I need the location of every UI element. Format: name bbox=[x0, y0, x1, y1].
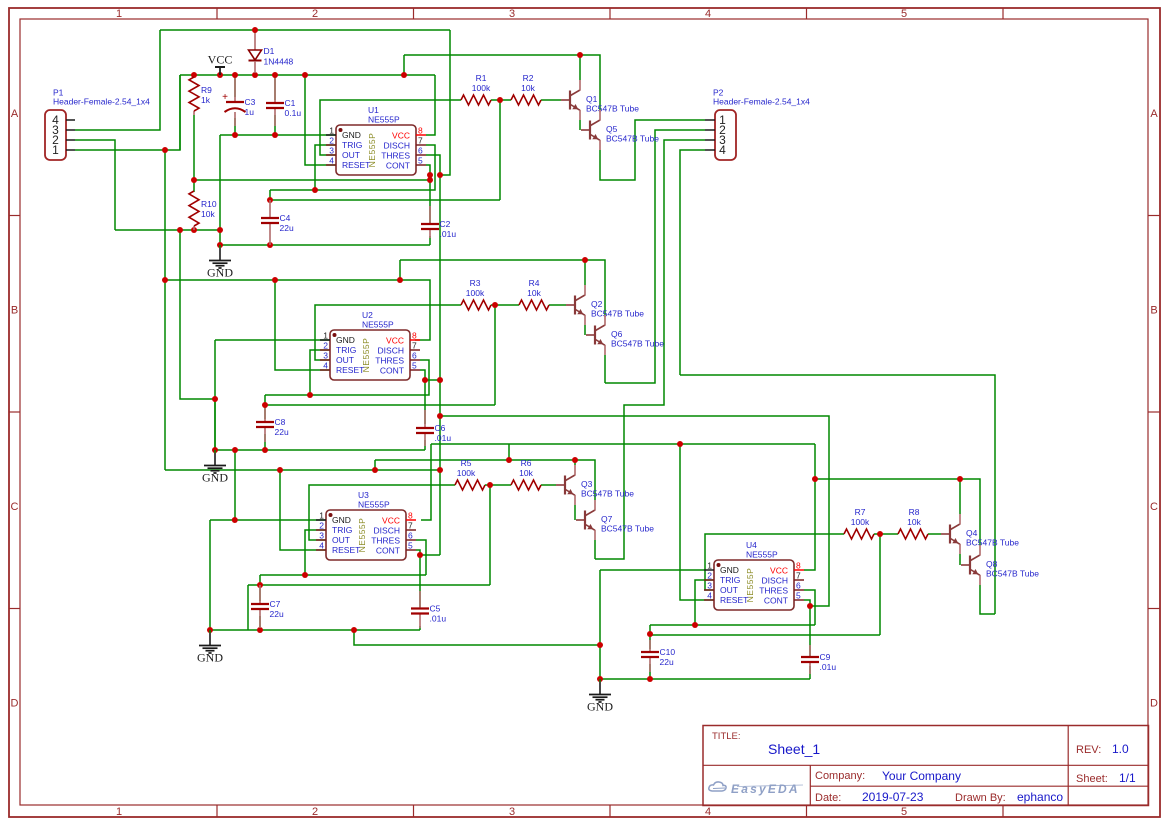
wire R2-Q1 bbox=[541, 99, 561, 101]
svg-text:Company:: Company: bbox=[815, 770, 865, 782]
junction row630/gnd3 bbox=[207, 627, 213, 633]
junction row280/RESET2 bbox=[272, 277, 278, 283]
junction rail/row55 bbox=[401, 72, 407, 78]
svg-text:7: 7 bbox=[796, 571, 801, 581]
svg-text:Header-Female-2.54_1x4: Header-Female-2.54_1x4 bbox=[713, 97, 810, 107]
svg-text:DISCH: DISCH bbox=[762, 576, 788, 586]
wire CONT3 tie bbox=[420, 554, 440, 556]
svg-text:10k: 10k bbox=[527, 288, 541, 298]
U4 pin 8 VCC bbox=[794, 569, 804, 571]
wire x600 gnd col bbox=[599, 570, 601, 679]
junction row230/R10 bbox=[191, 227, 197, 233]
svg-text:1k: 1k bbox=[201, 95, 211, 105]
svg-text:Date:: Date: bbox=[815, 792, 841, 804]
EasyEDA logo bbox=[709, 782, 726, 791]
svg-text:1: 1 bbox=[319, 511, 324, 521]
ground GND3 bbox=[209, 630, 211, 633]
P1 pin 2 bbox=[66, 139, 75, 141]
resistor R1 bbox=[461, 95, 491, 105]
U1 pin 2 TRIG bbox=[326, 144, 336, 146]
svg-text:EasyEDA: EasyEDA bbox=[731, 782, 800, 796]
wire row55 collector Q1/Q5 bbox=[404, 55, 600, 110]
wire C8 bottom bbox=[264, 434, 266, 450]
svg-text:TITLE:: TITLE: bbox=[712, 731, 741, 742]
svg-text:Q7: Q7 bbox=[601, 514, 613, 524]
junction row280/row260 bbox=[397, 277, 403, 283]
junction CONT1 bbox=[427, 172, 433, 178]
wire C7 top bbox=[259, 575, 261, 601]
svg-text:.01u: .01u bbox=[430, 614, 447, 624]
svg-text:2: 2 bbox=[312, 8, 318, 20]
wire Q5.E down bbox=[600, 120, 705, 180]
svg-text:2: 2 bbox=[707, 571, 712, 581]
svg-text:U2: U2 bbox=[362, 310, 373, 320]
wire row200 bbox=[270, 199, 500, 201]
U1 pin 8 VCC bbox=[416, 134, 426, 136]
svg-text:RESET: RESET bbox=[342, 160, 370, 170]
junction row260/Q2C bbox=[582, 257, 588, 263]
svg-text:R7: R7 bbox=[855, 507, 866, 517]
svg-text:CONT: CONT bbox=[764, 596, 788, 606]
wire x235 to U3.GND bbox=[234, 450, 236, 520]
svg-text:Your Company: Your Company bbox=[882, 769, 961, 783]
svg-text:Q8: Q8 bbox=[986, 559, 998, 569]
capacitor C8 bbox=[256, 421, 274, 423]
svg-text:THRES: THRES bbox=[759, 586, 788, 596]
U4 pin 6 THRES bbox=[794, 589, 804, 591]
svg-text:4: 4 bbox=[705, 8, 711, 20]
resistor R3 bbox=[461, 300, 491, 310]
svg-text:5: 5 bbox=[901, 806, 907, 818]
U3 pin 6 THRES bbox=[406, 539, 416, 541]
svg-text:TRIG: TRIG bbox=[720, 575, 740, 585]
wire R5-R6 bbox=[485, 484, 511, 486]
junction row630/C7 bbox=[257, 627, 263, 633]
U3 pin 2 TRIG bbox=[316, 529, 326, 531]
svg-text:ephanco: ephanco bbox=[1017, 790, 1063, 804]
svg-text:10k: 10k bbox=[907, 517, 921, 527]
wire row30 top rail bbox=[160, 29, 450, 31]
capacitor C9 bbox=[801, 656, 819, 658]
svg-text:D1: D1 bbox=[264, 46, 275, 56]
U2 pin 8 VCC bbox=[410, 339, 420, 341]
svg-text:BC547B Tube: BC547B Tube bbox=[586, 104, 639, 114]
U2 pin 2 TRIG bbox=[320, 349, 330, 351]
wire P1.1 to VCC rail bbox=[75, 75, 180, 150]
wire R1R2 junction down bbox=[499, 100, 501, 200]
wire U1 THRES down bbox=[426, 155, 440, 555]
svg-text:5: 5 bbox=[412, 361, 417, 371]
wire Q3 collector up bbox=[574, 460, 576, 465]
svg-text:R10: R10 bbox=[201, 199, 217, 209]
connector P1 Header-Female-2.54_1x4 body bbox=[45, 110, 66, 160]
junction row470/row460 bbox=[372, 467, 378, 473]
svg-text:1u: 1u bbox=[245, 107, 255, 117]
svg-text:4: 4 bbox=[707, 591, 712, 601]
junction row190/TRIG1 bbox=[312, 187, 318, 193]
svg-text:THRES: THRES bbox=[381, 151, 410, 161]
junction row645 bbox=[597, 642, 603, 648]
svg-text:THRES: THRES bbox=[371, 536, 400, 546]
wire row260 collectors Q2/Q6 bbox=[400, 260, 605, 315]
wire C4 tap bbox=[269, 190, 271, 200]
svg-text:BC547B Tube: BC547B Tube bbox=[966, 538, 1019, 548]
wire row416 bbox=[440, 416, 829, 606]
wire row479 bbox=[815, 479, 980, 545]
svg-text:TRIG: TRIG bbox=[332, 525, 352, 535]
wire row135 caps to U1.GND bbox=[220, 134, 336, 136]
svg-text:1/1: 1/1 bbox=[1119, 771, 1136, 785]
wire U4 OUT to R7 bbox=[705, 534, 844, 590]
wire U2 OUT to R3 bbox=[315, 305, 461, 360]
wire U2 GND row bbox=[215, 339, 330, 341]
junction row200/C4 bbox=[267, 197, 273, 203]
wire row375 bbox=[680, 375, 995, 614]
wire U3 CONT bbox=[416, 550, 420, 555]
wire row679 gnd4 bbox=[600, 678, 810, 680]
svg-text:OUT: OUT bbox=[332, 535, 350, 545]
svg-text:22u: 22u bbox=[275, 427, 289, 437]
sheet ruler ticks bbox=[216, 8, 218, 19]
op-amp U3 NE555P body bbox=[326, 510, 406, 560]
svg-text:4: 4 bbox=[319, 541, 324, 551]
svg-text:100k: 100k bbox=[466, 288, 485, 298]
wire U4 CONT bbox=[804, 600, 810, 657]
svg-text:C7: C7 bbox=[270, 599, 281, 609]
U2 pin 7 DISCH bbox=[410, 349, 420, 351]
svg-text:TRIG: TRIG bbox=[336, 345, 356, 355]
svg-text:3: 3 bbox=[329, 146, 334, 156]
svg-text:GND: GND bbox=[202, 471, 228, 485]
junction rail/C1 bbox=[272, 72, 278, 78]
svg-text:7: 7 bbox=[408, 521, 413, 531]
svg-text:GND: GND bbox=[197, 651, 223, 665]
wire P2.4 col bbox=[680, 150, 705, 375]
ground GND4 bbox=[599, 679, 601, 682]
junction R3/R4 bbox=[492, 302, 498, 308]
svg-text:10k: 10k bbox=[521, 83, 535, 93]
junction row460/Q3C bbox=[572, 457, 578, 463]
svg-text:BC547B Tube: BC547B Tube bbox=[986, 569, 1039, 579]
wire U2 RESET bbox=[275, 280, 330, 370]
svg-text:100k: 100k bbox=[472, 83, 491, 93]
junction row135/C1 bbox=[272, 132, 278, 138]
svg-text:NE555P: NE555P bbox=[746, 550, 778, 560]
capacitor C5 bbox=[411, 607, 429, 609]
transistor Q4 BC547B bbox=[941, 533, 950, 535]
svg-text:.01u: .01u bbox=[820, 662, 837, 672]
svg-text:0.1u: 0.1u bbox=[285, 108, 302, 118]
junction row470/RESET3 bbox=[277, 467, 283, 473]
svg-text:2019-07-23: 2019-07-23 bbox=[862, 790, 924, 804]
U4 pin 7 DISCH bbox=[794, 579, 804, 581]
svg-text:Drawn By:: Drawn By: bbox=[955, 792, 1006, 804]
svg-text:.01u: .01u bbox=[435, 433, 452, 443]
wire U3 VCC feed bbox=[421, 444, 431, 520]
wire row230 bbox=[115, 229, 220, 231]
capacitor C6 bbox=[416, 427, 434, 429]
svg-text:3: 3 bbox=[323, 351, 328, 361]
svg-text:22u: 22u bbox=[270, 609, 284, 619]
junction row470/x440 bbox=[437, 467, 443, 473]
wire U1 OUT to R1 bbox=[320, 100, 461, 155]
U4 pin 5 CONT bbox=[794, 599, 804, 601]
svg-text:1N4448: 1N4448 bbox=[264, 57, 294, 67]
resistor R7 bbox=[844, 529, 874, 539]
junction row230/x180 bbox=[177, 227, 183, 233]
svg-text:BC547B Tube: BC547B Tube bbox=[581, 489, 634, 499]
svg-text:C5: C5 bbox=[430, 604, 441, 614]
svg-text:B: B bbox=[11, 305, 18, 317]
P2 pin 1 bbox=[705, 119, 715, 121]
wire C9 bottom bbox=[809, 666, 811, 679]
wire row190 DISCH bbox=[270, 145, 435, 190]
wire P2.2 col bbox=[605, 130, 705, 383]
power VCC bbox=[219, 67, 221, 75]
U1 pin 1 GND bbox=[326, 134, 336, 136]
svg-text:GND: GND bbox=[342, 130, 361, 140]
U2 pin 5 CONT bbox=[410, 369, 420, 371]
wire C2 bottom join bbox=[429, 236, 431, 245]
wire R8-Q4 bbox=[928, 533, 941, 535]
junction rail/D1 bbox=[252, 72, 258, 78]
svg-text:GND: GND bbox=[336, 335, 355, 345]
svg-text:NE555P: NE555P bbox=[358, 500, 390, 510]
svg-text:RESET: RESET bbox=[720, 595, 748, 605]
wire row630 gnd3 bbox=[210, 629, 420, 631]
wire R10 top bbox=[193, 180, 195, 192]
P1 pin 4 bbox=[66, 119, 75, 121]
junction CONT3 bbox=[417, 552, 423, 558]
op-amp U2 NE555P body bbox=[330, 330, 410, 380]
junction row450/C8 bbox=[262, 447, 268, 453]
svg-text:THRES: THRES bbox=[375, 356, 404, 366]
junction row625/TRIG4 bbox=[692, 622, 698, 628]
svg-text:10k: 10k bbox=[201, 209, 215, 219]
svg-text:OUT: OUT bbox=[342, 150, 360, 160]
P1 pin 3 bbox=[66, 129, 75, 131]
svg-text:Q1: Q1 bbox=[586, 94, 598, 104]
svg-text:C9: C9 bbox=[820, 652, 831, 662]
junction rail/C3 bbox=[232, 72, 238, 78]
wire row245 gnd bbox=[220, 244, 430, 246]
svg-text:8: 8 bbox=[418, 126, 423, 136]
wire P1.3 to row30 bbox=[75, 30, 160, 130]
wire x180 upper bbox=[179, 75, 181, 150]
junction rail/RESET1 bbox=[302, 72, 308, 78]
junction row280/x165 bbox=[162, 277, 168, 283]
svg-text:6: 6 bbox=[796, 581, 801, 591]
U3 pin 1 GND bbox=[316, 519, 326, 521]
wire row444 bbox=[431, 443, 815, 445]
svg-text:VCC: VCC bbox=[386, 336, 404, 346]
wire row630 jog bbox=[354, 630, 600, 645]
svg-text:Sheet_1: Sheet_1 bbox=[768, 741, 820, 757]
wire Q2 collector up bbox=[584, 260, 586, 285]
svg-text:1: 1 bbox=[323, 331, 328, 341]
capacitor C1 bbox=[266, 102, 284, 104]
wire C1 bottom bbox=[274, 115, 276, 135]
wire U1 RESET to rail bbox=[305, 75, 336, 165]
svg-text:6: 6 bbox=[412, 351, 417, 361]
svg-text:C1: C1 bbox=[285, 98, 296, 108]
svg-text:1: 1 bbox=[116, 806, 122, 818]
wire U4 RESET bbox=[680, 444, 714, 600]
U2 pin 3 OUT bbox=[320, 359, 330, 361]
svg-text:OUT: OUT bbox=[336, 355, 354, 365]
wire Q3.E-Q7.B bbox=[574, 505, 576, 520]
wire x215 gnd col bbox=[214, 340, 216, 450]
wire row450 gnd2 bbox=[215, 449, 425, 451]
wire U3 TRIG bbox=[305, 530, 326, 575]
resistor R6 bbox=[511, 480, 541, 490]
wire x180 lower bbox=[180, 230, 215, 399]
ground GND2 bbox=[214, 450, 216, 453]
svg-text:TRIG: TRIG bbox=[342, 140, 362, 150]
P2 pin 3 bbox=[705, 139, 715, 141]
junction row245/C4 bbox=[267, 242, 273, 248]
wire x420 cont drop bbox=[419, 555, 421, 607]
svg-text:C: C bbox=[1150, 501, 1158, 513]
wire C1 top bbox=[274, 75, 276, 100]
wire U1 TRIG bbox=[315, 145, 336, 190]
junction row679/C10 bbox=[647, 676, 653, 682]
wire U4 GND row bbox=[600, 569, 704, 571]
svg-text:4: 4 bbox=[705, 806, 711, 818]
svg-text:R1: R1 bbox=[476, 73, 487, 83]
svg-text:GND: GND bbox=[207, 266, 233, 280]
junction row575/TRIG3 bbox=[302, 572, 308, 578]
svg-text:RESET: RESET bbox=[332, 545, 360, 555]
junction rail/R9 bbox=[191, 72, 197, 78]
wire C8 top bbox=[264, 405, 266, 419]
junction row180/C2 bbox=[427, 177, 433, 183]
svg-text:U3: U3 bbox=[358, 490, 369, 500]
wire U3 GND row bbox=[210, 519, 326, 521]
junction R1/R2 bbox=[497, 97, 503, 103]
U1 pin 3 OUT bbox=[326, 154, 336, 156]
wire R7R8 junction col bbox=[879, 534, 881, 635]
svg-text:R5: R5 bbox=[461, 458, 472, 468]
wire U3 THRES bbox=[416, 540, 426, 575]
wire U1 CONT bbox=[426, 165, 430, 224]
junction row460/row444 bbox=[506, 457, 512, 463]
transistor Q8 BC547B bbox=[961, 564, 970, 566]
wire x220 caps gnd bbox=[219, 135, 221, 245]
svg-text:Sheet:: Sheet: bbox=[1076, 773, 1108, 785]
svg-text:GND: GND bbox=[332, 515, 351, 525]
svg-text:22u: 22u bbox=[660, 657, 674, 667]
junction THRES1 bbox=[437, 172, 443, 178]
junction row135/C3 bbox=[232, 132, 238, 138]
connector P2 Header-Female-2.54_1x4 body bbox=[715, 110, 736, 160]
svg-text:NE555P: NE555P bbox=[362, 320, 394, 330]
svg-text:U1: U1 bbox=[368, 105, 379, 115]
svg-text:10k: 10k bbox=[519, 468, 533, 478]
svg-text:8: 8 bbox=[412, 331, 417, 341]
resistor R5 bbox=[455, 480, 485, 490]
junction row55/Q1C bbox=[577, 52, 583, 58]
wire row395 under U2 bbox=[265, 360, 429, 395]
svg-text:6: 6 bbox=[408, 531, 413, 541]
wire C10 bottom bbox=[649, 664, 651, 679]
wire x815 vcc col bbox=[814, 444, 816, 479]
transistor Q5 BC547B bbox=[581, 129, 590, 131]
svg-text:U4: U4 bbox=[746, 540, 757, 550]
wire row180 bbox=[194, 179, 430, 181]
junction row479/x815 bbox=[812, 476, 818, 482]
svg-text:Q4: Q4 bbox=[966, 528, 978, 538]
svg-text:R8: R8 bbox=[909, 507, 920, 517]
wire C6 bottom bbox=[424, 440, 426, 450]
wire Q2.E-Q6.B bbox=[584, 325, 586, 335]
resistor R10 bbox=[189, 191, 199, 226]
junction row444/RESET4 bbox=[677, 441, 683, 447]
P2 pin 4 bbox=[705, 149, 715, 151]
wire P1.2 down bbox=[75, 140, 115, 230]
svg-text:OUT: OUT bbox=[720, 585, 738, 595]
junction row399 bbox=[212, 396, 218, 402]
junction row630 jog bbox=[351, 627, 357, 633]
svg-text:5: 5 bbox=[796, 591, 801, 601]
svg-text:DISCH: DISCH bbox=[378, 346, 404, 356]
resistor R4 bbox=[519, 300, 549, 310]
svg-text:R9: R9 bbox=[201, 85, 212, 95]
transistor Q1 BC547B bbox=[561, 99, 570, 101]
wire row635 bbox=[650, 634, 880, 636]
svg-text:+: + bbox=[222, 92, 228, 103]
wire C3 bottom bbox=[234, 118, 236, 135]
svg-text:5: 5 bbox=[418, 156, 423, 166]
svg-text:Q5: Q5 bbox=[606, 124, 618, 134]
wire R7-R8 bbox=[874, 533, 898, 535]
wire Q6.E down bbox=[604, 355, 606, 383]
wire x165 P1.1 down bbox=[164, 150, 166, 470]
svg-text:BC547B Tube: BC547B Tube bbox=[601, 524, 654, 534]
resistor R9 bbox=[189, 77, 199, 111]
svg-text:DISCH: DISCH bbox=[384, 141, 410, 151]
wire U4 TRIG bbox=[695, 580, 714, 625]
wire R9 bottom bbox=[193, 115, 195, 180]
svg-text:VCC: VCC bbox=[770, 566, 788, 576]
svg-text:B: B bbox=[1150, 305, 1157, 317]
U1 pin 7 DISCH bbox=[416, 144, 426, 146]
wire C8 feed bbox=[264, 395, 266, 405]
junction THRES2 tie bbox=[437, 377, 443, 383]
U3 pin 3 OUT bbox=[316, 539, 326, 541]
junction row405/C8 bbox=[262, 402, 268, 408]
U3 pin 5 CONT bbox=[406, 549, 416, 551]
svg-text:22u: 22u bbox=[280, 223, 294, 233]
wire U2 THRES tie bbox=[425, 379, 440, 381]
svg-text:R6: R6 bbox=[521, 458, 532, 468]
junction row479/Q4C bbox=[957, 476, 963, 482]
junction rail/VCC bbox=[217, 72, 223, 78]
svg-text:A: A bbox=[1150, 108, 1158, 120]
svg-text:3: 3 bbox=[509, 8, 515, 20]
wire x650 tie bbox=[649, 625, 651, 635]
wire U3 RESET bbox=[280, 470, 326, 550]
wire U3 OUT to R5 bbox=[309, 485, 455, 540]
svg-text:GND: GND bbox=[587, 700, 613, 714]
junction P1.1 split bbox=[162, 147, 168, 153]
wire C6 col bbox=[424, 380, 426, 424]
svg-text:5: 5 bbox=[408, 541, 413, 551]
wire Q1 collector up bbox=[579, 55, 581, 80]
U1 pin 5 CONT bbox=[416, 164, 426, 166]
svg-text:VCC: VCC bbox=[382, 516, 400, 526]
U3 pin 7 DISCH bbox=[406, 529, 416, 531]
